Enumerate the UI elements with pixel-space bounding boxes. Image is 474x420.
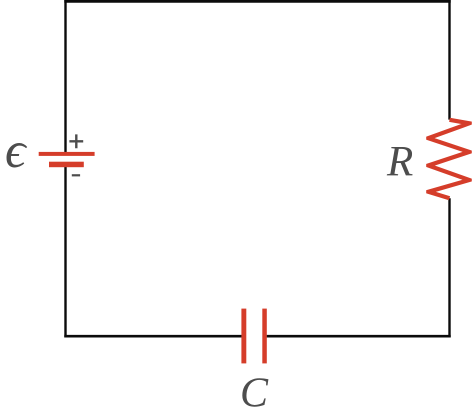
svg-text:C: C (240, 371, 269, 417)
wire: bottom right segment (capacitor right plate to corner) (267, 335, 451, 338)
capacitor left plate (241, 309, 246, 364)
wire: bottom left segment (corner to capacitor left plate) (64, 335, 241, 338)
wire: right side upper (top corner down to resistor) (448, 0, 450, 120)
minus sign (72, 174, 80, 176)
battery bottom plate (short, -) (49, 162, 84, 168)
capacitor right plate (262, 309, 267, 364)
wire: right side lower (resistor down to bottom corner) (448, 198, 450, 337)
svg-text:ϵ: ϵ (5, 123, 28, 179)
wire: left side upper (top corner down to battery + plate) (64, 0, 66, 152)
battery top plate (long, +) (39, 152, 95, 156)
svg-text:R: R (386, 139, 413, 186)
wire: top side of loop (64, 0, 450, 3)
plus sign (69, 134, 83, 148)
wire: left side lower (battery - plate down to bottom corner) (64, 167, 66, 337)
